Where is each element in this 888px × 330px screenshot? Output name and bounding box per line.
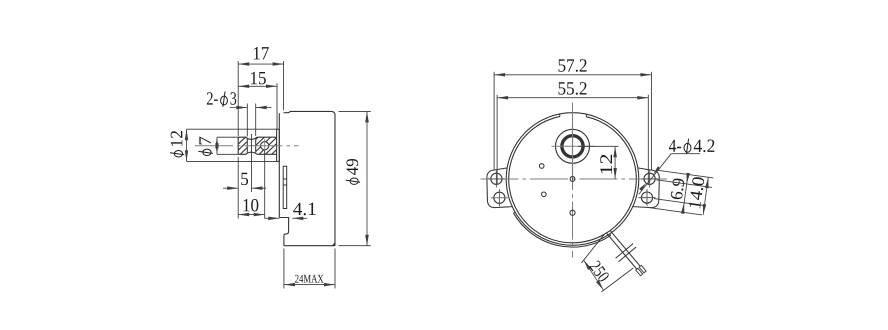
left ear hole lower	[494, 192, 505, 203]
dim Ø7 line	[216, 137, 218, 154]
left ear hole upper	[491, 173, 502, 184]
right ear hole lower	[641, 192, 652, 203]
dim 5 extension lines	[237, 157, 239, 219]
dim ext from ear top	[658, 170, 714, 178]
dim 6.9 line	[683, 174, 688, 213]
face hole C	[570, 210, 575, 215]
dim 14.0 line	[703, 177, 708, 215]
hub	[277, 129, 280, 161]
shaft boss circle	[556, 129, 590, 163]
dim 10 label	[243, 199, 258, 212]
dim 12 extension line	[578, 145, 619, 147]
front plate circle with top gap	[509, 116, 637, 242]
wire 2 terminal tip	[636, 268, 643, 276]
shaft cross-hole slot edges	[246, 139, 248, 153]
dim 57.2 extension lines	[493, 72, 495, 170]
dim 14.0 label	[689, 177, 705, 209]
dim 17 extension lines	[237, 61, 239, 136]
dim 24MAX label	[295, 275, 323, 283]
dim 12 label	[600, 155, 612, 174]
dim 24MAX extension lines	[283, 249, 285, 289]
body top edge	[284, 111, 335, 245]
vertical centerline	[572, 103, 574, 258]
dim 55.2 label	[559, 82, 587, 95]
dim 4.1 label	[293, 203, 315, 216]
right ear hole upper	[644, 173, 655, 184]
dim 57.2 line	[494, 74, 651, 76]
motor body circle	[506, 113, 639, 246]
dim 250 extension line A	[582, 234, 605, 263]
dim 17 label	[254, 47, 269, 59]
bottom strap band arc	[514, 213, 611, 247]
dim 6.9 label	[670, 178, 685, 200]
dim 12 line	[614, 146, 616, 179]
dim 55.2 line	[497, 97, 648, 99]
lead wire 1	[610, 230, 640, 266]
plate rim steps at top gap	[585, 114, 588, 117]
strap band end caps	[514, 211, 516, 214]
dim Ø49 extension lines	[339, 110, 371, 112]
right mounting ear	[633, 168, 660, 208]
body lower-left step	[279, 218, 288, 246]
dim Ø12 label	[170, 131, 184, 157]
dim ext from ear bottom	[650, 208, 703, 215]
dim Ø12 extension lines	[187, 128, 277, 130]
dim 55.2 extension lines	[496, 95, 498, 185]
dim ext from upper hole	[657, 180, 713, 188]
dim 5 line	[223, 187, 238, 189]
label 4-Ø4.2	[669, 139, 715, 154]
dim Ø49 line	[366, 111, 368, 245]
shaft cross-hole circle	[261, 142, 269, 150]
center mark	[570, 177, 575, 182]
shaft crosshair	[552, 145, 594, 147]
wire break mark	[616, 244, 634, 259]
shaft outline	[238, 137, 276, 154]
dim 15 label	[251, 72, 266, 85]
dim ext from lower hole	[654, 199, 704, 206]
label 4-Ø4.2 leader	[671, 153, 700, 155]
dim 57.2 label	[559, 59, 587, 72]
face hole A	[539, 164, 544, 169]
body corner tick	[332, 242, 335, 246]
dim 10 line	[238, 214, 265, 216]
face hole B	[542, 192, 547, 197]
shaft bore ring	[562, 136, 583, 157]
dim Ø49 label	[346, 159, 360, 184]
cross-hole centerline vertical	[264, 139, 266, 153]
dim 250 extension line B	[602, 268, 634, 292]
left mounting ear	[487, 168, 512, 208]
wire 1 terminal tip	[639, 265, 646, 273]
dim 17 line	[238, 63, 283, 65]
dim Ø7 extension lines	[217, 136, 238, 138]
dim 5 label	[241, 173, 248, 185]
plate face	[278, 113, 280, 217]
shaft-to-center solid line	[572, 125, 574, 179]
dim Ø7 label	[198, 137, 212, 156]
dim 10 extension line	[264, 151, 266, 219]
dim 15 line	[238, 85, 277, 87]
dim 250 label	[589, 260, 610, 283]
dim 4.1 line	[265, 217, 280, 219]
dim Ø12 line	[186, 129, 188, 161]
terminal nub on plate face	[283, 166, 287, 208]
dim 2-Ø3 extension lines	[246, 104, 248, 137]
dim 24MAX line	[284, 284, 335, 286]
dim 250 line	[584, 260, 604, 290]
dim 2-Ø3 line	[230, 107, 248, 109]
horizontal centerline	[481, 178, 668, 180]
shaft section hatching	[218, 134, 305, 157]
lead wire 2	[607, 233, 637, 269]
body bottom edge	[284, 245, 335, 247]
dim 15 extension line	[276, 83, 278, 128]
shaft centerline	[195, 145, 299, 147]
dim 2-Ø3 label	[207, 91, 236, 106]
